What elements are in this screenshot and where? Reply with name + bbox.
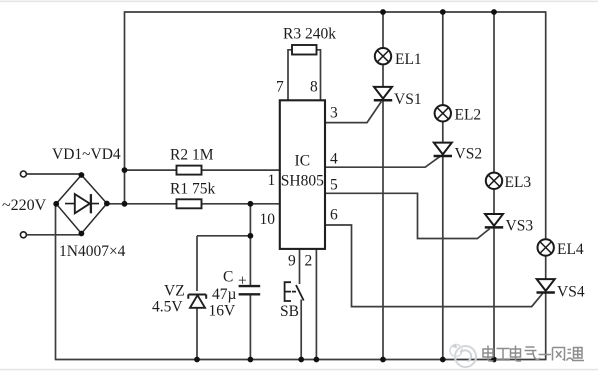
svg-text:7: 7 [276,79,284,96]
svg-text:10: 10 [260,211,276,228]
node R1 left junction [122,201,128,207]
pin label 3 [330,105,338,122]
label R3 240k [283,26,336,43]
label VS3 [506,218,534,235]
svg-text:3: 3 [330,105,338,122]
wire lamp column 1 [382,12,384,360]
label 47u [212,286,237,303]
wire IC pin 7 to R3 [288,50,292,101]
label R2 1M [170,147,214,164]
svg-text:VS1: VS1 [394,91,422,108]
svg-text:VS3: VS3 [506,218,534,235]
svg-text:VS2: VS2 [455,146,483,163]
svg-text:R1 75k: R1 75k [170,181,215,198]
node bottom rail column 1 [380,357,386,363]
wire IC pin 3 to VS1 gate [325,102,381,123]
node top rail column 1 [380,9,386,15]
svg-text:VZ: VZ [164,283,185,300]
label 16V [209,303,237,320]
resistor R2 [177,166,202,175]
switch SB blade [296,285,304,301]
svg-text:5: 5 [330,177,338,194]
wire IC pin 4 to VS2 gate [325,156,440,167]
label SH805 [281,173,324,190]
pin label 6 [330,207,338,224]
node bottom rail zener [194,357,200,363]
node bridge top vertex [79,172,85,178]
wire IC pin 5 to VS3 gate [325,193,490,238]
label EL3 [505,174,532,191]
resistor R3 [292,45,317,55]
node top rail column 3 [491,9,497,15]
node top rail column 2 [440,9,446,15]
label EL4 [557,241,584,258]
pin label 10 [260,211,276,228]
wire bottom rail [56,359,547,361]
label IC [295,153,311,170]
node bridge bottom vertex [79,231,85,237]
wire zener VZ column upper [196,236,198,291]
capacitor C plates [239,286,261,294]
wire top rail [125,11,546,13]
label ~220V [2,197,47,214]
wire R2 line [125,169,280,171]
node C zener tee [248,233,254,239]
bridge diode symbol [65,194,99,213]
op-amp IC U1 SH805 box [280,100,325,249]
wire left vertical from top rail to R1 node [124,11,126,204]
svg-text:~220V: ~220V [2,197,47,214]
node bottom rail pin 2 [314,357,320,363]
svg-text:9: 9 [288,253,296,270]
label R1 75k [170,181,215,198]
wire IC pin 9 to switch SB [299,249,301,284]
node R1 right junction to C [248,201,254,207]
label VS2 [455,146,483,163]
node bridge left vertex [53,201,59,207]
node bridge right vertex [104,201,110,207]
wire bottom input terminal to bridge [26,234,81,236]
thyristor VS4 [537,279,555,292]
svg-text:47µ: 47µ [212,286,237,303]
decorative bottom separator [0,369,598,371]
pin label 5 [330,177,338,194]
svg-text:IC: IC [295,153,311,170]
wire R1 node down to capacitor C [249,204,251,285]
pin label 2 [305,253,313,270]
svg-text:VS4: VS4 [557,283,585,300]
input terminal bottom [20,232,26,238]
svg-text:2: 2 [305,253,313,270]
thyristor VS2 [434,143,452,156]
wire IC pin 8 to R3 [316,50,321,101]
wire left vertical from bridge left vertex to bottom rail [55,204,57,360]
svg-text:EL3: EL3 [505,174,532,191]
wire zener VZ column lower [196,308,198,360]
wire lamp column 3 [493,12,495,360]
svg-text:EL1: EL1 [395,51,422,68]
svg-text:1: 1 [268,172,276,189]
decorative watermark icon [450,344,476,367]
lamp EL3 [486,173,502,189]
label VS1 [394,91,422,108]
decorative watermark text [483,346,584,362]
wire switch SB to bottom rail [300,300,302,360]
svg-text:1N4007×4: 1N4007×4 [59,243,126,260]
pin label 4 [330,151,338,168]
lamp EL1 [375,48,391,64]
wire bridge output to R1 line [107,203,280,205]
svg-text:C: C [223,269,233,286]
thyristor VS1 [374,87,392,100]
svg-text:4.5V: 4.5V [152,299,183,316]
label VD1~VD4 [52,146,121,163]
decorative top separator [0,1,598,2]
pin label 8 [310,79,318,96]
wire right vertical lamp column 4 [545,11,547,359]
bridge rectifier VD1~VD4 diamond [56,175,107,234]
label SB [280,303,299,320]
thyristor VS3 [485,214,503,227]
wire capacitor C to bottom rail [249,295,251,360]
svg-text:EL4: EL4 [557,241,584,258]
label C plus [238,273,247,290]
pin label 7 [276,79,284,96]
wire top input terminal to bridge [26,173,81,175]
switch SB actuator [285,282,296,301]
svg-text:16V: 16V [209,303,237,320]
svg-text:4: 4 [330,151,338,168]
pin label 1 [268,172,276,189]
label EL1 [395,51,422,68]
svg-text:SB: SB [280,303,299,320]
wire tee to zener VZ branch [197,235,250,237]
svg-text:VD1~VD4: VD1~VD4 [52,146,121,163]
input terminal top [20,171,26,177]
node bottom rail column 2 [440,357,446,363]
svg-text:R3 240k: R3 240k [283,26,336,43]
zener diode VZ [188,295,206,308]
wire IC pin 2 to bottom rail [315,249,317,360]
node bottom rail capacitor [248,357,254,363]
resistor R1 [177,199,202,208]
wire lamp column 2 [442,12,444,360]
label C [223,269,233,286]
wire IC pin 6 to VS4 gate [325,225,543,307]
lamp EL4 [538,239,554,255]
node R2 left junction [122,167,128,173]
label EL2 [455,107,482,124]
svg-text:R2 1M: R2 1M [170,147,214,164]
label 1N4007x4 [59,243,126,260]
node bottom rail switch [298,357,304,363]
label VZ [164,283,185,300]
svg-text:+: + [238,273,247,290]
lamp EL2 [435,105,451,121]
label 4.5V [152,299,183,316]
svg-text:SH805: SH805 [281,173,324,190]
node bottom rail column 3 [491,357,497,363]
svg-text:6: 6 [330,207,338,224]
label VS4 [557,283,585,300]
svg-text:8: 8 [310,79,318,96]
svg-text:EL2: EL2 [455,107,482,124]
pin label 9 [288,253,296,270]
